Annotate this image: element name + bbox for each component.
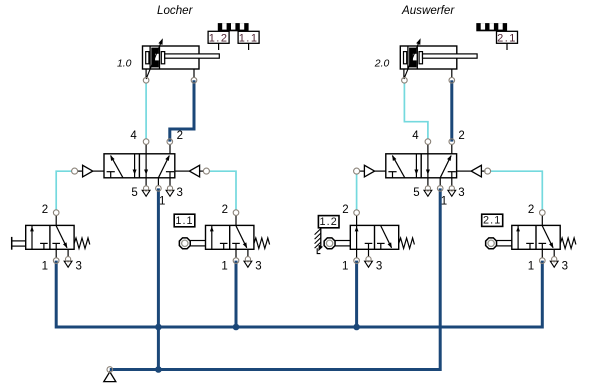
- svg-text:1.2: 1.2: [320, 216, 338, 228]
- svg-text:3: 3: [176, 187, 182, 199]
- svg-text:Auswerfer: Auswerfer: [401, 4, 455, 17]
- svg-text:3: 3: [376, 260, 382, 272]
- svg-text:2: 2: [528, 204, 534, 216]
- svg-text:4: 4: [412, 130, 419, 142]
- svg-text:1.2: 1.2: [209, 32, 229, 44]
- svg-text:1: 1: [528, 260, 534, 272]
- svg-text:1.1: 1.1: [175, 215, 193, 227]
- svg-text:2: 2: [222, 204, 228, 216]
- svg-text:2.0: 2.0: [374, 58, 390, 69]
- svg-text:1.1: 1.1: [239, 32, 259, 44]
- svg-text:3: 3: [75, 260, 81, 272]
- svg-text:2: 2: [177, 130, 183, 142]
- svg-text:1: 1: [342, 260, 348, 272]
- svg-text:2.1: 2.1: [497, 32, 517, 44]
- svg-text:2: 2: [42, 204, 48, 216]
- svg-text:2: 2: [458, 130, 464, 142]
- svg-text:5: 5: [413, 187, 419, 199]
- svg-text:3: 3: [562, 260, 568, 272]
- svg-text:2.1: 2.1: [483, 215, 501, 227]
- svg-text:1.0: 1.0: [117, 58, 132, 69]
- svg-text:1: 1: [221, 260, 227, 272]
- svg-text:3: 3: [255, 260, 261, 272]
- svg-text:5: 5: [131, 187, 137, 199]
- svg-text:Locher: Locher: [157, 4, 194, 17]
- svg-text:3: 3: [458, 187, 464, 199]
- svg-text:4: 4: [130, 130, 137, 142]
- svg-text:1: 1: [159, 196, 165, 208]
- svg-text:2: 2: [342, 204, 348, 216]
- svg-text:1: 1: [42, 260, 48, 272]
- svg-text:1: 1: [441, 196, 447, 208]
